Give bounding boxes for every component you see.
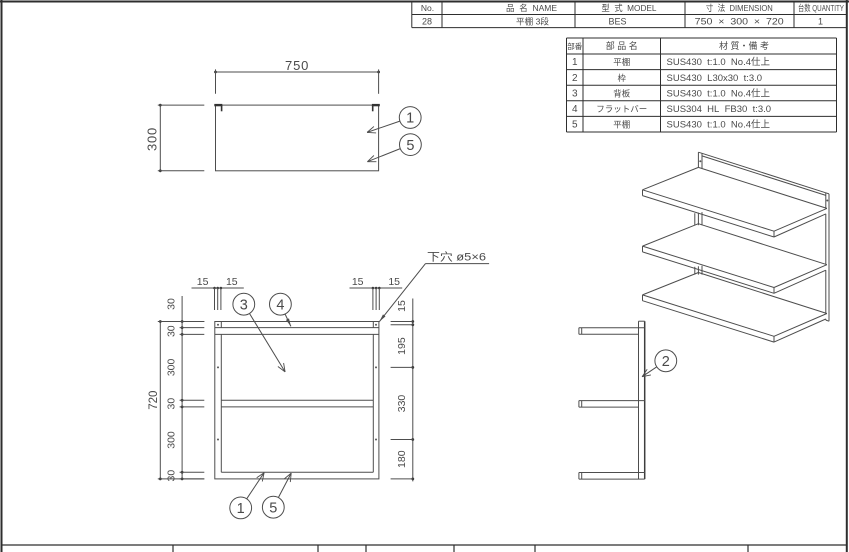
svg-text:15: 15 — [396, 300, 408, 312]
svg-text:2: 2 — [572, 73, 578, 84]
svg-text:720: 720 — [148, 391, 160, 410]
svg-text:SUS430 t:1.0 No.4仕上: SUS430 t:1.0 No.4仕上 — [667, 87, 771, 99]
svg-text:SUS430 t:1.0 No.4仕上: SUS430 t:1.0 No.4仕上 — [667, 56, 771, 68]
svg-text:180: 180 — [396, 450, 408, 468]
svg-text:330: 330 — [396, 395, 408, 413]
svg-text:1: 1 — [572, 57, 578, 68]
svg-text:4: 4 — [572, 104, 578, 115]
svg-text:30: 30 — [165, 298, 177, 310]
svg-text:3: 3 — [240, 297, 248, 313]
svg-text:750: 750 — [285, 58, 309, 73]
svg-text:300: 300 — [145, 127, 160, 151]
svg-text:型 式 MODEL: 型 式 MODEL — [602, 3, 657, 13]
svg-text:28: 28 — [422, 17, 432, 27]
svg-text:平棚: 平棚 — [613, 120, 630, 130]
svg-text:5: 5 — [572, 120, 578, 131]
svg-text:195: 195 — [396, 337, 408, 355]
svg-text:1: 1 — [818, 17, 823, 27]
svg-text:材 質・備 考: 材 質・備 考 — [719, 40, 769, 51]
svg-text:750 × 300 × 720: 750 × 300 × 720 — [695, 17, 784, 27]
svg-text:BES: BES — [608, 17, 626, 27]
svg-text:部 品 名: 部 品 名 — [606, 40, 638, 51]
svg-text:下穴 ø5×6: 下穴 ø5×6 — [427, 250, 486, 264]
svg-text:背板: 背板 — [613, 88, 631, 98]
svg-text:フラットバー: フラットバー — [596, 104, 647, 114]
svg-text:1: 1 — [237, 501, 245, 517]
svg-text:No.: No. — [421, 3, 434, 13]
svg-text:寸 法 DIMENSION: 寸 法 DIMENSION — [706, 3, 773, 13]
svg-text:1: 1 — [406, 111, 414, 127]
svg-text:部番: 部番 — [567, 41, 582, 51]
svg-text:5: 5 — [406, 138, 414, 154]
svg-text:4: 4 — [276, 297, 284, 313]
svg-text:30: 30 — [165, 325, 177, 337]
svg-text:5: 5 — [269, 500, 277, 516]
svg-text:15: 15 — [388, 276, 400, 288]
svg-text:300: 300 — [165, 431, 177, 449]
svg-text:台数 QUANTITY: 台数 QUANTITY — [798, 3, 844, 13]
svg-text:3: 3 — [572, 88, 578, 99]
svg-text:30: 30 — [165, 470, 177, 482]
svg-text:品 名 NAME: 品 名 NAME — [506, 3, 557, 13]
svg-text:15: 15 — [226, 276, 238, 288]
svg-text:2: 2 — [662, 354, 670, 370]
svg-text:300: 300 — [165, 358, 177, 376]
svg-text:15: 15 — [197, 276, 209, 288]
svg-text:SUS430 t:1.0 No.4仕上: SUS430 t:1.0 No.4仕上 — [667, 119, 771, 131]
svg-text:平棚 3段: 平棚 3段 — [516, 17, 550, 27]
svg-text:SUS430 L30x30 t:3.0: SUS430 L30x30 t:3.0 — [667, 73, 763, 84]
svg-text:15: 15 — [352, 276, 364, 288]
svg-text:平棚: 平棚 — [613, 57, 630, 67]
svg-text:30: 30 — [165, 398, 177, 410]
svg-text:枠: 枠 — [618, 73, 627, 83]
svg-text:SUS304 HL FB30 t:3.0: SUS304 HL FB30 t:3.0 — [667, 104, 772, 115]
